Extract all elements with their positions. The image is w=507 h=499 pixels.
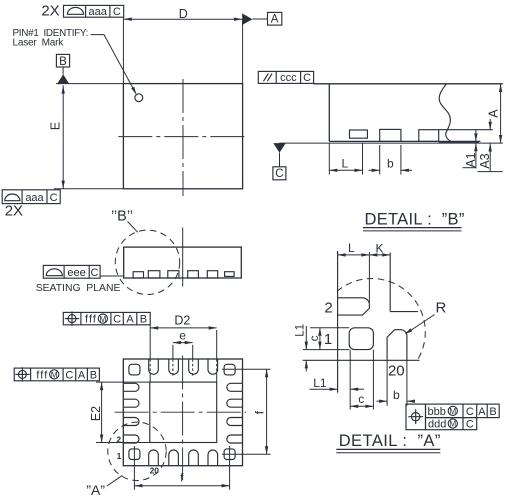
svg-text:2X: 2X — [5, 202, 23, 219]
svg-text:bbb: bbb — [428, 406, 446, 418]
svg-text:f: f — [180, 471, 184, 485]
svg-text:fff: fff — [85, 314, 97, 326]
svg-text:L1: L1 — [313, 376, 327, 390]
svg-text:B: B — [489, 406, 496, 418]
svg-text:b: b — [393, 388, 400, 402]
svg-text:fff: fff — [36, 369, 48, 381]
svg-text:aaa: aaa — [25, 192, 44, 204]
svg-text:Laser Mark: Laser Mark — [13, 37, 65, 48]
svg-text:L: L — [348, 241, 355, 255]
svg-text:C: C — [303, 72, 311, 84]
svg-text:C: C — [113, 314, 121, 326]
svg-text:K: K — [375, 241, 383, 255]
svg-text:A3: A3 — [478, 153, 492, 168]
svg-text:c: c — [307, 335, 321, 341]
svg-text:C: C — [91, 267, 99, 279]
svg-text:f: f — [252, 410, 266, 414]
svg-text:D: D — [179, 7, 188, 21]
svg-text:A: A — [126, 314, 134, 326]
svg-text:C: C — [65, 369, 73, 381]
svg-text:L1: L1 — [295, 324, 307, 337]
svg-text:C: C — [466, 406, 474, 418]
svg-text:A: A — [478, 406, 486, 418]
svg-text:2: 2 — [324, 300, 332, 317]
svg-text:DETAIL : ”A”: DETAIL : ”A” — [339, 432, 441, 450]
svg-text:1: 1 — [117, 451, 122, 461]
svg-text:M: M — [51, 370, 58, 380]
svg-text:C: C — [50, 192, 58, 204]
svg-text:2X: 2X — [41, 2, 59, 19]
svg-text:C: C — [113, 6, 121, 18]
svg-text:L: L — [341, 156, 348, 170]
svg-text:E: E — [48, 122, 62, 130]
svg-text:’’B’’: ’’B’’ — [111, 208, 133, 224]
svg-text:2: 2 — [116, 434, 121, 444]
svg-text:”A”: ”A” — [86, 482, 105, 498]
svg-text:B: B — [90, 369, 97, 381]
svg-text:1: 1 — [324, 331, 332, 348]
svg-text:D2: D2 — [174, 314, 190, 328]
svg-text:C: C — [466, 418, 474, 430]
svg-text:A: A — [78, 369, 86, 381]
svg-text:M: M — [99, 314, 106, 324]
svg-text:c: c — [358, 392, 364, 406]
svg-text:aaa: aaa — [89, 6, 108, 18]
svg-text:M: M — [449, 406, 456, 416]
svg-text:A: A — [486, 109, 500, 118]
svg-text:M: M — [449, 419, 456, 429]
svg-text:E2: E2 — [89, 406, 103, 421]
svg-text:A: A — [271, 14, 279, 26]
svg-text:ddd: ddd — [428, 418, 446, 430]
svg-text:DETAIL : ”B”: DETAIL : ”B” — [365, 211, 465, 229]
svg-text:B: B — [59, 56, 67, 68]
svg-text:C: C — [275, 168, 283, 180]
svg-text:b: b — [387, 156, 394, 170]
svg-text:R: R — [435, 300, 446, 317]
svg-text:eee: eee — [67, 267, 85, 279]
svg-text:B: B — [140, 314, 147, 326]
svg-text:e: e — [179, 329, 186, 343]
svg-text:ccc: ccc — [280, 72, 297, 84]
svg-text:20: 20 — [150, 466, 160, 476]
svg-text:20: 20 — [388, 363, 405, 380]
svg-text:SEATING PLANE: SEATING PLANE — [36, 283, 121, 294]
svg-text:A1: A1 — [464, 152, 478, 167]
